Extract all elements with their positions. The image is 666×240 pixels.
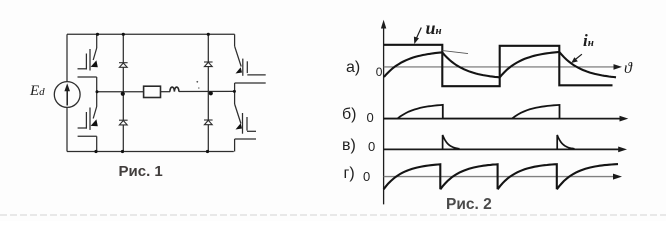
junction dot bottom rail / VD2 (121, 150, 124, 153)
row a axis horizontal (384, 66, 617, 68)
label Ed (30, 83, 45, 100)
row b pulse 2 (443, 105, 560, 119)
row v axis (384, 148, 621, 150)
row g curve seg 2 (440, 164, 497, 189)
row b label (342, 106, 357, 124)
inductor L load (two humps) (170, 87, 179, 92)
caption Рис. 1 (119, 163, 163, 180)
row a current curve i (384, 52, 616, 77)
row v spike 1 (diode current) (443, 135, 460, 149)
junction dot load right node (233, 90, 236, 93)
row v label (342, 137, 356, 155)
diode VD1 (upper-left freewheel) (119, 63, 128, 68)
junction dot top rail / VD1 (122, 33, 125, 36)
transistor VT1 (top-left IGBT) (78, 34, 97, 91)
junction dot bottom rail / VT2 (94, 150, 97, 153)
row a label (346, 59, 360, 77)
label i_n (583, 31, 594, 51)
junction dot top rail / VD3 (207, 33, 210, 36)
row g curve seg 4 (557, 164, 618, 189)
diode VD1 leg wire (inner-left upper) (122, 34, 124, 62)
diode VD3 leg wire (inner-right upper) (207, 34, 209, 62)
bottom faint artifact line (0, 214, 666, 216)
wire left leg upper (66, 34, 68, 81)
row g axis (384, 176, 616, 178)
label i arrow (575, 54, 582, 59)
wire load branch left (97, 91, 144, 93)
source Ed (circle with up arrow) (54, 82, 80, 108)
junction dot load / VD leg left (large) (121, 92, 125, 96)
junction dot load / VD leg right (large) (209, 91, 213, 95)
row g zero (363, 169, 370, 184)
junction dot bottom rail / VD4 (206, 150, 209, 153)
wire resistor to inductor (161, 91, 171, 93)
row v zero (368, 139, 375, 154)
diode VD2 leg wire (inner-left lower) (122, 92, 124, 121)
row g curve seg 3 (498, 164, 557, 189)
row v spike 2 (557, 135, 574, 149)
axis vertical (383, 26, 385, 204)
wire left leg lower (66, 107, 68, 151)
junction dot top rail / VT1 (96, 33, 99, 36)
row b pulse 1 (transistor current) (384, 105, 443, 119)
artifact speck (196, 81, 198, 83)
row a square wave u (384, 45, 613, 86)
diode VD4 leg wire (inner-right lower) (207, 91, 209, 120)
resistor R load (box) (144, 86, 161, 97)
row a tangent line (443, 51, 469, 54)
caption Рис. 2 (446, 196, 492, 214)
transistor VT2 (bottom-left IGBT) (78, 92, 97, 152)
row g label (344, 165, 355, 183)
wire bottom rail (67, 151, 234, 153)
wire top rail (67, 33, 235, 35)
row b zero (367, 110, 374, 125)
row a zero (376, 65, 383, 79)
diode VD2 (lower-left freewheel) (119, 120, 128, 125)
transistor VT4 (bottom-right IGBT, mirrored) (235, 91, 256, 151)
wire load branch right (179, 90, 235, 92)
transistor VT3 (top-right IGBT, mirrored) (235, 34, 266, 91)
junction dot load left node (96, 90, 99, 93)
label u arrow (416, 28, 421, 39)
diode VD3 (upper-right freewheel) (204, 62, 213, 67)
row b axis (384, 118, 623, 120)
label theta (624, 60, 632, 78)
diode VD4 (lower-right freewheel) (204, 120, 213, 125)
row g curve seg 1 (input current) (384, 164, 441, 189)
label u_n (426, 18, 442, 39)
